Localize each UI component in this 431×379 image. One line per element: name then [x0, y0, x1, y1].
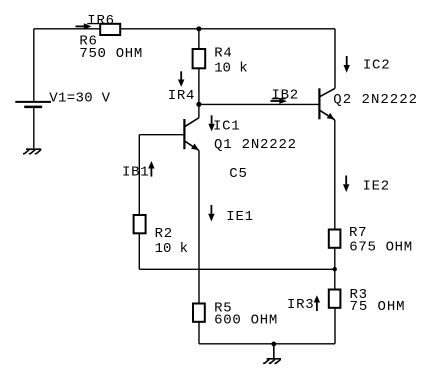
wire Q1 collector stub [198, 104, 200, 117]
transistor Q2 [319, 88, 335, 120]
svg-text:IR4: IR4 [168, 88, 195, 104]
svg-text:675 OHM: 675 OHM [349, 240, 413, 256]
svg-text:750 OHM: 750 OHM [79, 46, 143, 62]
resistor R5 [193, 304, 205, 322]
node mid junction dot [333, 267, 337, 271]
svg-text:IC1: IC1 [213, 119, 240, 135]
svg-text:Q2 2N2222: Q2 2N2222 [333, 92, 418, 108]
current arrow IB1 [148, 161, 154, 177]
battery V1 [15, 102, 51, 107]
resistor R4 [193, 49, 206, 68]
transistor Q1 [184, 118, 199, 151]
current arrow IR3 [314, 295, 320, 311]
label 10 k value of R2 [155, 241, 189, 257]
svg-text:R4: R4 [214, 46, 232, 62]
resistor R3 [329, 290, 341, 308]
resistor R2 [134, 215, 146, 233]
svg-text:IE2: IE2 [363, 178, 390, 194]
ground G2 [263, 344, 281, 364]
current arrow IR4 [178, 71, 184, 87]
label IR3 [287, 297, 314, 313]
wire top rail right segment [120, 28, 335, 30]
resistor R7 [329, 230, 341, 248]
svg-text:IB1: IB1 [122, 165, 149, 181]
wire Q2 base [199, 103, 320, 105]
node N1 junction dot [196, 26, 201, 31]
label Q1 2N2222 [214, 137, 297, 153]
svg-text:IR3: IR3 [287, 297, 314, 313]
wire R7 bottom stub [334, 248, 336, 269]
wire Q1 base [139, 134, 184, 136]
node base junction dot [196, 102, 201, 107]
wire R4 top stub [198, 29, 200, 49]
label R3 [350, 287, 368, 303]
label R5 [214, 300, 232, 316]
svg-text:600 OHM: 600 OHM [214, 312, 278, 328]
wire R2 rail bottom [138, 233, 140, 269]
wire Q2 emitter rail [334, 120, 336, 230]
current arrow IC1 [208, 115, 214, 131]
label 750 OHM value [79, 46, 143, 62]
wire R3 top stub [334, 269, 336, 289]
current arrow IC2 [344, 56, 350, 73]
label R6 [79, 34, 97, 50]
label R4 [214, 46, 232, 62]
label 75 OHM value [350, 299, 406, 315]
svg-text:R7: R7 [349, 225, 367, 241]
svg-text:10 k: 10 k [155, 241, 189, 257]
node ground junction dot [271, 342, 276, 347]
label IC1 [213, 119, 240, 135]
label 600 OHM value [214, 312, 278, 328]
label IB1 [122, 165, 149, 181]
wire mid rail [139, 268, 334, 270]
wire bottom rail [199, 343, 335, 345]
label 10 k value of R4 [214, 61, 248, 77]
svg-text:10 k: 10 k [214, 61, 248, 77]
label IE2 [363, 178, 390, 194]
svg-text:IC2: IC2 [363, 58, 390, 74]
svg-text:C5: C5 [229, 166, 247, 182]
label Q2 2N2222 [333, 92, 418, 108]
svg-text:IR6: IR6 [87, 13, 114, 29]
label IE1 [226, 209, 253, 225]
svg-text:IB2: IB2 [272, 87, 299, 103]
label R7 [349, 225, 367, 241]
current arrow IE1 [208, 205, 214, 222]
svg-text:V1=30 V: V1=30 V [49, 91, 111, 107]
label IR4 [168, 88, 195, 104]
label IB2 [272, 87, 299, 103]
wire top right corner down [334, 29, 336, 89]
label IC2 [363, 58, 390, 74]
label 675 OHM value [349, 240, 413, 256]
current arrow IB2 [271, 98, 288, 104]
wire Q1 emitter rail [198, 151, 200, 304]
ground G1 [23, 149, 41, 154]
wire R4 bottom stub [198, 68, 200, 104]
resistor R6 [100, 24, 120, 35]
current arrow IE2 [343, 176, 349, 193]
wire R3 bottom stub [334, 308, 336, 344]
wire left rail top [33, 29, 35, 101]
wire top rail left segment [34, 28, 100, 30]
label C5 [229, 166, 247, 182]
label V1=30 V [49, 91, 111, 107]
label IR6 [87, 13, 114, 29]
current arrow IR6 [76, 23, 92, 29]
svg-text:IE1: IE1 [226, 209, 253, 225]
svg-text:75 OHM: 75 OHM [350, 299, 406, 315]
svg-text:Q1 2N2222: Q1 2N2222 [214, 137, 297, 153]
svg-text:R2: R2 [155, 226, 173, 242]
label R2 [155, 226, 173, 242]
wire R5 bottom stub [198, 322, 200, 344]
wire R2 rail top [138, 135, 140, 215]
wire left rail bottom [33, 108, 35, 148]
